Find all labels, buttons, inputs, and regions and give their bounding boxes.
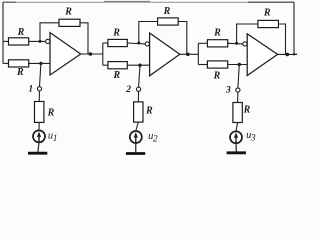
resistor R2a (upper input) — [108, 39, 127, 46]
svg-text:R: R — [163, 6, 171, 17]
junction tap node 3 — [238, 63, 241, 66]
resistor R2b (lower input) — [108, 62, 127, 69]
wire R2b to op-amp noninverting input — [127, 64, 149, 66]
svg-text:R: R — [64, 7, 72, 18]
resistor R3f (feedback) — [258, 20, 279, 27]
svg-text:2: 2 — [125, 85, 131, 95]
svg-text:R: R — [213, 28, 221, 39]
wire terminal 1 to R1v — [38, 91, 40, 102]
wire top feedback bus — [3, 1, 294, 3]
ground stage 3 — [227, 151, 246, 154]
svg-text:3: 3 — [250, 134, 256, 144]
node terminal 3 — [236, 88, 240, 92]
svg-text:R: R — [47, 107, 55, 118]
svg-text:R: R — [243, 105, 251, 116]
wire to R2b — [103, 64, 108, 66]
resistor R2v (vertical) — [134, 102, 143, 122]
junction feedback/input stage 1 — [39, 40, 42, 43]
junction output/feedback stage 2 — [186, 53, 190, 57]
wire output stage 1 — [81, 53, 103, 55]
wire to R3b — [198, 64, 207, 66]
wire terminal 2 to R2v — [137, 91, 139, 102]
resistor R2f (feedback) — [158, 18, 179, 25]
wire source u1 to ground — [38, 142, 39, 153]
op-amp U1 — [50, 33, 81, 75]
wire left input bus — [2, 2, 4, 63]
resistor R1v (vertical) — [35, 102, 44, 123]
resistor R1a (upper input) — [9, 38, 29, 45]
ground stage 2 — [126, 152, 145, 155]
junction tap node 2 — [138, 63, 141, 66]
node input split stage 3 — [197, 43, 199, 64]
op-amp U2 — [150, 33, 180, 76]
wire source u2 to ground — [135, 143, 137, 154]
junction output/feedback stage 1 — [89, 52, 93, 56]
wire to R1b — [3, 62, 9, 64]
inverting input bubble U2 — [145, 42, 149, 46]
wire R1b to op-amp noninverting input — [29, 62, 50, 64]
wire feedback riser stage 1 — [40, 23, 59, 42]
wire feedback to output stage 1 — [80, 23, 88, 54]
wire feedback riser stage 3 — [237, 24, 258, 43]
svg-text:R: R — [112, 70, 120, 81]
wire down to terminal 2 — [139, 65, 140, 87]
wire R1v to source u1 — [38, 122, 40, 130]
wire down to terminal 1 — [40, 63, 41, 86]
svg-text:3: 3 — [225, 86, 231, 96]
wire R3a to op-amp inverting input — [228, 42, 243, 45]
wire output to right edge — [294, 53, 297, 55]
junction feedback/input stage 3 — [235, 42, 238, 45]
current source u2 — [130, 131, 142, 143]
svg-text:R: R — [17, 27, 25, 38]
svg-text:1: 1 — [28, 85, 33, 95]
resistor R3a (upper input) — [207, 40, 227, 47]
wire output stage 3 — [278, 53, 298, 55]
resistor R1b (lower input) — [9, 60, 29, 67]
wire R3b to op-amp noninverting input — [228, 64, 248, 66]
resistor R3v (vertical) — [233, 103, 242, 123]
wire R3v to source u3 — [236, 123, 238, 132]
svg-text:R: R — [213, 71, 221, 82]
wire output stage 2 — [180, 53, 199, 55]
wire to R3a — [198, 42, 207, 44]
current source u1 — [33, 130, 45, 142]
svg-text:1: 1 — [53, 134, 58, 144]
resistor R3b (lower input) — [207, 61, 227, 68]
junction output/riser stage 3 — [293, 53, 295, 55]
svg-text:R: R — [145, 105, 153, 116]
wire to R2a — [103, 42, 108, 44]
wire R1a to op-amp inverting input — [29, 40, 46, 42]
junction tap node 1 — [39, 62, 42, 65]
ground stage 1 — [28, 152, 47, 155]
wire source u3 to ground — [235, 143, 237, 153]
svg-text:2: 2 — [153, 134, 158, 144]
op-amp U3 — [247, 34, 277, 76]
wire feedback riser stage 2 — [139, 22, 158, 44]
current source u3 — [230, 131, 242, 143]
wire R2v to source u2 — [136, 122, 139, 131]
wire right riser from output — [293, 2, 295, 54]
svg-text:R: R — [263, 8, 271, 19]
wire down to terminal 3 — [238, 65, 239, 88]
svg-text:R: R — [16, 67, 24, 78]
wire to R1a — [3, 40, 9, 42]
node terminal 1 — [37, 87, 41, 91]
node terminal 2 — [137, 87, 141, 91]
node input split stage 2 — [102, 43, 104, 65]
resistor R1f (feedback) — [59, 19, 80, 26]
inverting input bubble U1 — [46, 39, 50, 43]
wire terminal 3 to R3v — [237, 92, 239, 102]
wire feedback to output stage 2 — [178, 22, 187, 55]
inverting input bubble U3 — [243, 42, 247, 46]
wire R2a to op-amp inverting input — [127, 42, 145, 45]
wire feedback to output stage 3 — [278, 24, 285, 54]
junction output/feedback stage 3 — [286, 53, 290, 57]
junction feedback/input stage 2 — [137, 42, 140, 45]
svg-text:R: R — [112, 28, 120, 39]
